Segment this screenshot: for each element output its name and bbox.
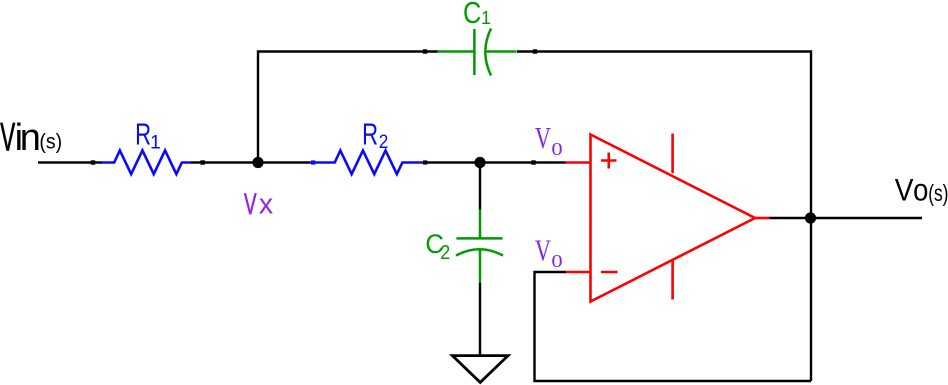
svg-text:V: V bbox=[535, 121, 551, 155]
svg-text:(s): (s) bbox=[928, 181, 948, 207]
svg-text:R: R bbox=[135, 117, 151, 151]
label Vo(s) bbox=[895, 173, 948, 208]
label C1 bbox=[463, 0, 491, 29]
node Vx junction dot bbox=[252, 157, 263, 168]
svg-text:V: V bbox=[244, 189, 257, 221]
svg-text:V: V bbox=[535, 233, 551, 267]
svg-text:0: 0 bbox=[551, 140, 562, 159]
pin tick R2 left bbox=[311, 160, 315, 164]
svg-text:1: 1 bbox=[150, 132, 161, 154]
label Vx bbox=[244, 188, 273, 221]
wire R2 to op-amp bbox=[424, 161, 566, 163]
wire input from Vin bbox=[38, 161, 102, 163]
wire feedback bottom loop bbox=[535, 272, 812, 381]
svg-text:1: 1 bbox=[481, 8, 491, 28]
label Vin(s) bbox=[0, 115, 62, 159]
wire Vx up and top-left segment bbox=[258, 52, 438, 163]
pin tick opamp +in bbox=[531, 160, 535, 164]
op-amp U1 bbox=[566, 134, 770, 302]
ground bbox=[452, 356, 508, 383]
svg-text:V: V bbox=[895, 173, 914, 208]
wire output bbox=[770, 217, 923, 219]
label C2 bbox=[425, 229, 450, 264]
label R2 bbox=[362, 117, 388, 152]
wire node down to C2 bbox=[479, 163, 481, 210]
svg-text:C: C bbox=[463, 0, 481, 29]
svg-text:R: R bbox=[362, 117, 378, 151]
pin tick R1 right bbox=[201, 160, 205, 164]
svg-text:2: 2 bbox=[379, 130, 389, 152]
node output junction dot bbox=[805, 212, 816, 223]
label V0 noninverting input bbox=[535, 121, 563, 160]
capacitor C2 bbox=[456, 210, 503, 283]
svg-text:o: o bbox=[913, 173, 928, 208]
svg-text:V: V bbox=[0, 115, 15, 159]
svg-text:n: n bbox=[20, 117, 41, 159]
svg-text:2: 2 bbox=[440, 242, 450, 264]
wire top-right segment and right vertical bbox=[517, 52, 811, 382]
resistor R1 bbox=[102, 150, 191, 174]
pin tick C1 left bbox=[423, 49, 427, 53]
svg-text:x: x bbox=[259, 188, 273, 220]
label R1 bbox=[135, 117, 161, 154]
svg-text:(s): (s) bbox=[39, 131, 62, 154]
pin tick C1 right bbox=[533, 49, 537, 53]
pin tick R1 left bbox=[91, 160, 95, 164]
wire R1 to R2 bbox=[191, 161, 310, 163]
node junction dot at C2 bbox=[474, 157, 485, 168]
pin tick R2 right bbox=[423, 160, 427, 164]
resistor R2 bbox=[310, 151, 424, 175]
svg-text:0: 0 bbox=[551, 252, 562, 271]
wire C2 to ground bbox=[479, 283, 481, 356]
label V0 inverting input bbox=[535, 233, 563, 272]
capacitor C1 bbox=[438, 29, 517, 76]
